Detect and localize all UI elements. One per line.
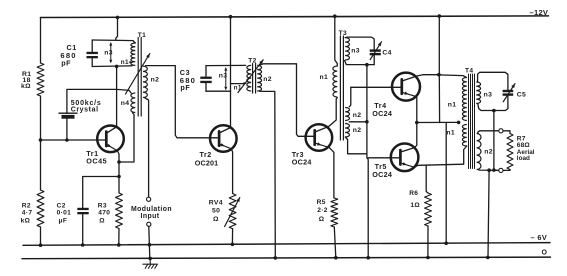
- wire R2 top: [40, 140, 42, 190]
- svg-text:n1: n1: [448, 101, 457, 108]
- svg-text:Ω: Ω: [213, 216, 219, 223]
- wire Tr5 base: [368, 157, 400, 159]
- junction Tr1 emitter / n4: [117, 160, 121, 164]
- svg-text:T4: T4: [465, 68, 473, 75]
- node base junction left: [39, 138, 43, 142]
- svg-text:RV4: RV4: [209, 200, 223, 207]
- T3 winding n1 left: [333, 66, 337, 97]
- wire T4 n1 top lead: [439, 75, 466, 78]
- terminal modulation input upper: [147, 197, 151, 201]
- junction T2 n2 / 0V rail: [274, 256, 278, 260]
- wire T3 n2 lower bottom to Tr5 base: [345, 137, 367, 154]
- svg-text:n3: n3: [351, 47, 360, 54]
- wire T2 n2 bottom to 0V rail: [260, 91, 276, 258]
- wire collector node vertical: [116, 66, 118, 126]
- Tr2 emitter lead: [219, 144, 231, 149]
- wire C2 top: [83, 177, 119, 208]
- wire -12V drop to T3 n1: [335, 16, 338, 66]
- junction n3 bottom node: [492, 109, 496, 113]
- transformer T1 core: [137, 38, 139, 117]
- svg-text:O: O: [542, 250, 548, 257]
- wire C5 bottom / n3 bottom: [478, 96, 508, 111]
- T1 winding n4 (left lower): [131, 93, 135, 113]
- svg-text:n1: n1: [234, 85, 242, 92]
- junction -12V rail / T3 drop: [333, 14, 337, 18]
- wire T4 n2 bottom: [478, 169, 499, 172]
- svg-text:C4: C4: [382, 50, 391, 57]
- T2 winding left: [247, 65, 251, 91]
- T3 winding n3 right: [345, 36, 347, 39]
- resistor R1: [37, 63, 44, 96]
- svg-text:OC24: OC24: [372, 170, 392, 179]
- resistor R2: [37, 190, 44, 227]
- T2 winding n2 right: [257, 65, 261, 91]
- terminal modulation input lower: [147, 222, 151, 226]
- crystal XT1 500kc/s: [66, 119, 68, 140]
- T1 winding n2 (right): [143, 66, 147, 97]
- wire C3 top lead: [205, 66, 207, 77]
- wire -12V drop to T2: [230, 17, 232, 128]
- junction T3 mid tap: [365, 120, 369, 124]
- wire emitter to T1 n4 bottom: [119, 113, 134, 162]
- wire R3 to -6V rail: [118, 229, 120, 245]
- svg-text:R2: R2: [22, 203, 31, 210]
- junction -12V rail / T4 drop: [438, 14, 442, 18]
- svg-text:Ω: Ω: [99, 217, 105, 224]
- wire emitter down: [118, 162, 120, 193]
- junction R6 / 0V rail: [426, 256, 430, 260]
- resistor R7: [507, 134, 513, 170]
- wire C3 bottom: [206, 90, 231, 92]
- wire R6 to 0V rail: [427, 226, 429, 258]
- transformer T4 core: [468, 74, 470, 169]
- wire C3 top: [206, 64, 246, 66]
- junction modulation / 0V rail: [148, 257, 152, 261]
- svg-text:n1: n1: [320, 74, 329, 81]
- transistor Tr2 OC201: [210, 125, 237, 152]
- wire tap to -6V rail: [445, 123, 447, 244]
- wire T3 n3 top to C4: [348, 37, 375, 49]
- svg-text:n2: n2: [353, 112, 362, 119]
- svg-text:OC201: OC201: [195, 158, 219, 167]
- junction crystal/base: [65, 138, 69, 142]
- wire -12V drop to C1/T1 top: [116, 17, 118, 40]
- junction -12V rail / T2 drop: [229, 15, 233, 19]
- wire C1 top lead: [91, 40, 93, 52]
- wire C3 bottom lead: [205, 83, 207, 91]
- wire T4 n1 lower bottom: [464, 146, 467, 164]
- svg-text:1Ω: 1Ω: [410, 202, 420, 209]
- terminal aerial upper: [499, 129, 503, 133]
- T2 tuning arrow: [238, 60, 263, 93]
- junction aerial return / 0V rail: [486, 256, 490, 260]
- wire Tr1 base: [41, 139, 107, 141]
- wire R1 to base node: [40, 96, 42, 140]
- wire node to T1 n4 top: [117, 89, 132, 93]
- Tr5 emitter lead: [401, 163, 415, 167]
- wire C1 bottom: [92, 65, 132, 68]
- T4 winding n3 right: [476, 82, 480, 104]
- capacitor C5 variable: [503, 90, 514, 92]
- svg-text:Modulation: Modulation: [131, 206, 172, 213]
- svg-text:n4: n4: [121, 100, 130, 107]
- T4 winding n1 lower left: [462, 125, 466, 147]
- resistor R3: [116, 193, 123, 229]
- T3 winding n2 upper right: [345, 108, 349, 121]
- junction C1 bottom / collector node: [115, 65, 119, 69]
- transistor Tr3 OC24: [306, 124, 333, 151]
- wire R5 to 0V rail: [334, 227, 336, 258]
- ground symbol: [149, 258, 151, 264]
- wire aerial return to 0V rail: [488, 170, 489, 257]
- wire C1 top: [92, 39, 133, 42]
- junction T4 tap: [457, 121, 461, 125]
- svg-text:Ω: Ω: [319, 216, 325, 223]
- capacitor C3 680pF: [200, 77, 211, 79]
- wire modulation to rails: [149, 226, 150, 258]
- wire T1 n2 bottom to modulation terminal: [145, 98, 149, 197]
- svg-text:load: load: [517, 155, 530, 162]
- capacitor C1 680pF: [87, 52, 98, 54]
- wire C2 bottom to -6V: [82, 214, 84, 245]
- junction C4 bottom node: [365, 63, 369, 67]
- wire T4 n3 top to C5: [478, 72, 508, 90]
- svg-text:pF: pF: [61, 58, 71, 67]
- T3 winding n2 lower right: [345, 124, 349, 138]
- transistor Tr5 OC24: [391, 144, 419, 172]
- Tr5 collector lead: [401, 148, 415, 152]
- wire C4 node down to T3 tap and Tr5 base: [367, 65, 368, 258]
- junction -12V rail / C1 drop: [116, 16, 120, 20]
- svg-text:– 6V: – 6V: [531, 233, 548, 242]
- wire T2 n2 top to Tr3 base: [260, 64, 315, 137]
- Tr1 collector lead: [107, 127, 117, 133]
- wire Tr5 emitter to R6: [426, 165, 428, 193]
- variable resistor RV4: [229, 194, 236, 229]
- junction modulation / -6V rail: [148, 243, 152, 247]
- junction emitter / C2: [117, 175, 121, 179]
- svg-text:R5: R5: [317, 199, 326, 206]
- wire R2 to -6V rail: [40, 227, 42, 245]
- svg-text:n1: n1: [121, 59, 129, 66]
- svg-text:4·7: 4·7: [22, 210, 33, 217]
- T4 winding n2 right: [477, 134, 481, 170]
- junction R5 / 0V rail: [334, 256, 338, 260]
- wire T4 n2 top / aerial: [478, 131, 499, 134]
- wire T3 n2 upper top to Tr4 base wire: [349, 87, 351, 107]
- svg-text:OC45: OC45: [86, 156, 107, 165]
- T1 tuning arrow: [126, 54, 150, 95]
- svg-text:kΩ: kΩ: [21, 217, 31, 224]
- svg-text:n2: n2: [484, 148, 493, 155]
- svg-text:C2: C2: [57, 203, 66, 210]
- wire tap horizontal: [417, 121, 459, 123]
- svg-text:pF: pF: [180, 83, 190, 92]
- svg-text:n2: n2: [263, 76, 272, 83]
- svg-text:n3: n3: [104, 49, 113, 56]
- junction R2 / -6V rail: [39, 243, 43, 247]
- svg-text:–12V: –12V: [530, 8, 549, 17]
- wire C4 bottom to n3 bottom: [345, 61, 375, 65]
- wire T2 n1 tap: [231, 83, 244, 85]
- wire left vertical from -12V rail: [40, 18, 42, 64]
- svg-text:0·01: 0·01: [57, 210, 72, 217]
- svg-text:R6: R6: [409, 190, 418, 197]
- svg-text:OC24: OC24: [292, 158, 312, 167]
- svg-text:n2: n2: [353, 127, 362, 134]
- transformer T3 core: [339, 36, 341, 140]
- power rail -6V (bottom): [23, 243, 550, 246]
- wire RV4 to -6V rail: [231, 229, 233, 245]
- rail 0V (bottom): [22, 257, 551, 259]
- junction / 0V rail: [366, 256, 370, 260]
- T4 winding n1 upper left: [462, 78, 466, 121]
- wire T1 n2 top to Tr2 base: [146, 66, 220, 138]
- Tr1 emitter lead: [107, 144, 118, 150]
- resistor R5: [331, 198, 338, 227]
- svg-text:OC24: OC24: [372, 109, 392, 118]
- wire Tr4 base: [351, 86, 402, 88]
- junction C2 / -6V rail: [81, 243, 85, 247]
- junction Tr4 collector / T4 n1 top: [437, 73, 441, 77]
- svg-text:n2: n2: [151, 77, 160, 84]
- wire C5 node down: [493, 111, 495, 171]
- terminal aerial lower: [499, 168, 503, 172]
- svg-text:n1: n1: [446, 130, 455, 137]
- svg-text:kΩ: kΩ: [21, 83, 31, 90]
- junction tap drop / -6V rail: [444, 241, 448, 245]
- wire T3 mid tap: [349, 121, 367, 123]
- transistor Tr4 OC24: [392, 73, 420, 101]
- transistor Tr1 OC45: [97, 126, 124, 153]
- wire crystal top to tank node: [67, 89, 117, 113]
- svg-text:R3: R3: [98, 203, 107, 210]
- svg-text:T1: T1: [138, 32, 146, 39]
- svg-text:Crystal: Crystal: [71, 107, 99, 114]
- Tr3 emitter lead: [315, 143, 329, 148]
- svg-text:470: 470: [98, 210, 110, 217]
- svg-text:μF: μF: [59, 217, 68, 224]
- power rail -12V (top): [41, 16, 549, 18]
- svg-text:n3: n3: [484, 91, 493, 98]
- svg-text:C5: C5: [517, 91, 526, 98]
- svg-text:2·2: 2·2: [317, 207, 328, 214]
- transformer T2 core: [252, 64, 254, 94]
- junction Tr4 emitter / tap wire: [415, 121, 419, 125]
- wire T4 drop continues to tap: [438, 75, 440, 123]
- junction R3 / -6V rail: [117, 243, 121, 247]
- Tr4 collector lead: [402, 75, 439, 81]
- junction n2 bottom / earth drop: [487, 168, 491, 172]
- junction RV4 / -6V rail: [231, 243, 235, 247]
- Tr4 emitter lead: [402, 92, 417, 96]
- capacitor C4 variable: [370, 49, 381, 51]
- Tr2 collector lead: [219, 128, 230, 134]
- svg-text:50: 50: [212, 207, 220, 214]
- capacitor C2 0.01uF: [77, 208, 88, 210]
- resistor R6: [425, 193, 432, 226]
- Tr3 collector lead: [315, 98, 337, 133]
- T1 winding n3+n1 (left): [133, 41, 135, 43]
- wire -12V drop to Tr4 collector node: [438, 16, 440, 75]
- svg-text:Input: Input: [141, 213, 160, 220]
- wire C1 bottom lead: [91, 58, 93, 66]
